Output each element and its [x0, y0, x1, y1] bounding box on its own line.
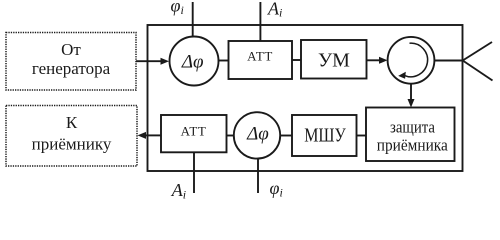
- svg-text:Δφ: Δφ: [181, 52, 204, 73]
- circulator U2: [388, 37, 435, 84]
- LNA box МШУ: [292, 115, 357, 156]
- svg-text:приёмнику: приёмнику: [32, 134, 112, 153]
- wire: АТТ to receiver, arrowhead left: [138, 132, 162, 139]
- svg-text:АТТ: АТТ: [181, 124, 207, 139]
- svg-text:φi: φi: [171, 0, 184, 17]
- svg-text:защита: защита: [390, 118, 435, 137]
- receiver protector box "защита приёмника": [366, 108, 455, 162]
- svg-text:генератора: генератора: [32, 59, 111, 78]
- phase shifter circle Δφ (bottom) U3: [234, 112, 280, 158]
- attenuator box АТТ (top): [229, 41, 293, 79]
- wire: МШУ to bottom Δφ: [281, 135, 292, 137]
- svg-text:К: К: [66, 113, 78, 132]
- phase shifter circle Δφ (top) U1: [170, 37, 219, 86]
- control line φi (top): [171, 0, 193, 36]
- wire: АТТ to УМ: [292, 59, 302, 61]
- svg-text:АТТ: АТТ: [247, 49, 273, 64]
- svg-text:От: От: [61, 40, 81, 59]
- attenuator box АТТ (bottom): [161, 115, 227, 152]
- wire: УМ to circulator, arrowhead right: [367, 57, 388, 64]
- dashed box "К приёмнику": [6, 106, 137, 167]
- wire: top Δφ to АТТ: [219, 60, 230, 62]
- power amplifier box УМ: [301, 40, 367, 79]
- control line Ai (bottom): [171, 152, 194, 201]
- svg-text:УМ: УМ: [318, 50, 350, 72]
- svg-text:приёмника: приёмника: [377, 135, 448, 154]
- antenna: [463, 42, 493, 81]
- dashed box "От генератора": [6, 33, 136, 91]
- control line φi (bottom): [258, 159, 283, 199]
- outer module rectangle: [148, 25, 463, 171]
- wire: generator output to top phase shifter, arrowhead right: [136, 58, 169, 65]
- control line Ai (top): [260, 0, 282, 41]
- wire: circulator down to receiver protector, arrowhead down: [408, 84, 415, 107]
- wire: circulator to antenna: [435, 60, 463, 62]
- wire: protector to МШУ: [357, 135, 367, 137]
- svg-text:МШУ: МШУ: [304, 125, 346, 147]
- svg-text:Δφ: Δφ: [246, 124, 269, 145]
- wire: bottom Δφ to АТТ: [227, 135, 234, 137]
